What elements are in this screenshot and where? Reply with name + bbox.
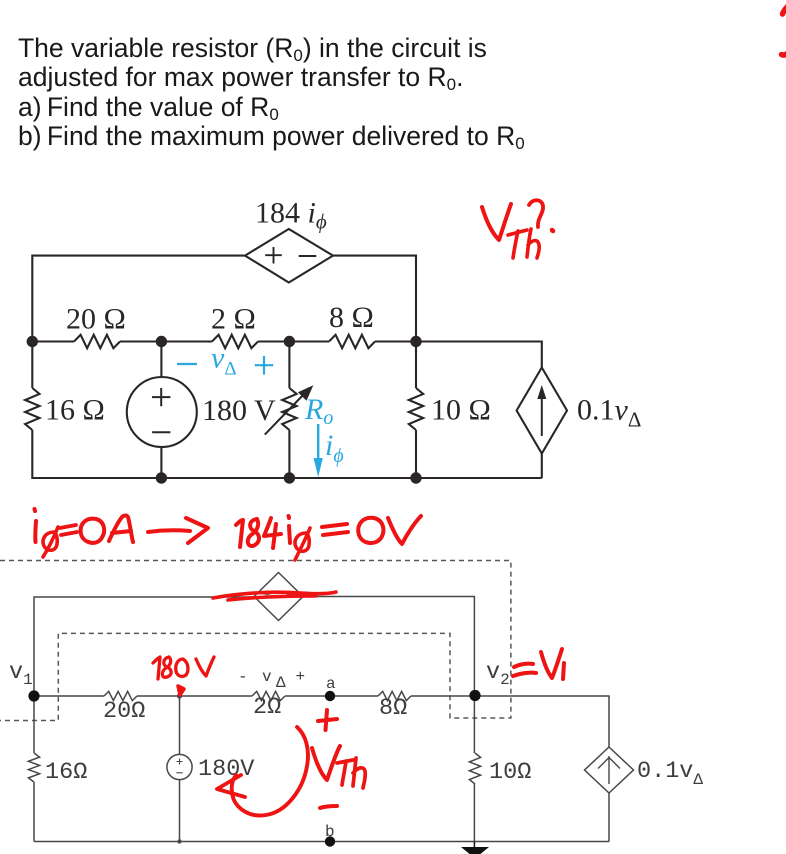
- red loop arrow: [232, 727, 308, 815]
- svg-text:8 Ω: 8 Ω: [329, 301, 374, 334]
- plus sign inside lower 180V: [177, 759, 183, 765]
- resistor lower 2ohm: [252, 691, 285, 700]
- red annotation 180V at node: [153, 657, 160, 679]
- problem statement line 3: [18, 92, 279, 126]
- wire middle rail segment node1-20ohm: [32, 340, 74, 342]
- junction dot 180V top: [177, 693, 182, 698]
- svg-text:a: a: [326, 675, 336, 693]
- wire 10ohm branch bottom: [415, 430, 417, 478]
- resistor R 2ohm: [212, 335, 258, 348]
- wire 180V branch bottom: [160, 447, 162, 478]
- wire Ro branch top: [288, 342, 290, 389]
- dependent source (zeroed) diamond lower circuit: [254, 573, 303, 621]
- svg-text:+: +: [296, 668, 306, 686]
- node dot v1: [28, 690, 39, 701]
- wire lower 10ohm branch upper: [473, 696, 475, 753]
- wire left rail upper: [31, 340, 33, 388]
- node dot b: [325, 836, 335, 846]
- wire top rail left: [32, 256, 245, 340]
- problem statement line 2: [18, 62, 463, 96]
- resistor lower 16ohm: [28, 753, 39, 782]
- svg-text:0.1vΔ: 0.1vΔ: [577, 394, 641, 432]
- variable resistor Ro zigzag: [282, 388, 296, 430]
- resistor lower 8ohm: [378, 691, 411, 700]
- wire lower middle rail 8ohm-v2: [411, 695, 474, 697]
- red minus below VTh: [320, 806, 337, 808]
- red ink corner blob 1: [783, 6, 786, 14]
- wire v2 to current source top: [474, 696, 609, 747]
- wire lower middle rail 2ohm-node a: [285, 695, 378, 697]
- node dot bottom 10ohm: [410, 472, 421, 483]
- voltage source V1 180V circle: [127, 377, 197, 447]
- wire middle rail segment 20ohm-2ohm: [120, 340, 212, 342]
- minus sign inside U1: [299, 255, 317, 257]
- resistor lower 10ohm: [469, 753, 480, 784]
- wire middle rail segment 2ohm-8ohm: [258, 340, 329, 342]
- ground symbol: [461, 847, 489, 854]
- wire left rail lower: [32, 430, 160, 478]
- svg-text:v: v: [262, 668, 272, 686]
- svg-text:20Ω: 20Ω: [103, 698, 145, 725]
- problem statement line 4: [18, 121, 525, 155]
- svg-text:10Ω: 10Ω: [489, 759, 531, 786]
- wire lower middle rail 20ohm-2ohm: [137, 695, 252, 697]
- red annotation =V1 at v2: [513, 664, 536, 676]
- node dot bottom Ro: [284, 472, 295, 483]
- wire lower current source bottom: [608, 793, 610, 842]
- resistor R 20ohm: [74, 335, 120, 348]
- red arrow to 180V node: [178, 686, 184, 695]
- arrowhead of Ro diagonal arrow: [298, 385, 313, 401]
- svg-text:v1: v1: [9, 659, 33, 689]
- svg-text:20 Ω: 20 Ω: [66, 303, 126, 336]
- wire lower middle rail v1-20ohm: [34, 695, 104, 697]
- svg-text:180 V: 180 V: [202, 394, 276, 427]
- voltage source lower 180V circle: [167, 754, 192, 779]
- wire middle rail segment 8ohm-right: [375, 342, 542, 368]
- plus sign inside V1: [152, 388, 170, 406]
- resistor R 10ohm: [409, 388, 423, 430]
- minus sign inside lower 180V: [176, 772, 182, 774]
- wire lower 180V branch top: [179, 696, 181, 755]
- problem statement line 1: [18, 33, 487, 67]
- resistor R 16ohm: [25, 388, 39, 430]
- arrowhead inside U2: [537, 385, 546, 399]
- variable resistor Ro arrow diagonal: [265, 393, 305, 435]
- node dot middle 10ohm: [410, 336, 421, 347]
- dependent current source lower 0.1vD diamond: [585, 747, 634, 793]
- svg-text:v2: v2: [486, 659, 510, 689]
- junction dot 180V bottom: [177, 839, 181, 843]
- plus sign inside U1: [265, 247, 282, 264]
- svg-text:16 Ω: 16 Ω: [45, 394, 105, 427]
- label minus vDelta plus (cyan): [177, 356, 273, 375]
- arrow inside lower current source: [598, 756, 620, 784]
- dashed Thevenin cut boundary: [0, 561, 511, 721]
- svg-text:iϕ: iϕ: [325, 429, 344, 467]
- node dot a: [325, 691, 335, 701]
- label iphi with arrow (cyan): [317, 424, 319, 462]
- svg-text:-: -: [238, 668, 248, 686]
- minus sign inside V1: [152, 431, 170, 433]
- wire Ro branch bottom: [288, 430, 290, 478]
- wire U2 bottom: [541, 454, 543, 479]
- svg-text:8Ω: 8Ω: [379, 695, 407, 722]
- red plus above VTh: [318, 710, 337, 730]
- dependent current source U2 0.1vD diamond: [517, 368, 567, 454]
- red ink corner blob 2: [782, 52, 786, 55]
- red annotation VTh? top: [482, 204, 511, 240]
- wire lower circuit top rail right: [303, 597, 474, 696]
- svg-text:184 iϕ: 184 iϕ: [255, 197, 327, 234]
- svg-text:b: b: [325, 823, 335, 841]
- arrow inside U2: [541, 392, 543, 436]
- node dot bottom 180V: [156, 472, 167, 483]
- red annotation iphi=0A arrow 184iphi=0V: [33, 521, 38, 542]
- wire 180V branch top: [160, 342, 162, 378]
- svg-text:Δ: Δ: [276, 674, 286, 692]
- resistor R 8ohm: [329, 335, 375, 348]
- node dot middle-left: [27, 336, 38, 347]
- svg-text:0.1vΔ: 0.1vΔ: [637, 758, 703, 789]
- wire lower circuit top rail left: [34, 597, 254, 695]
- svg-text:180V: 180V: [198, 756, 254, 783]
- wire lower 10ohm branch lower: [473, 784, 475, 842]
- node dot middle 180V: [156, 336, 167, 347]
- plus sign inside lower diamond: [264, 591, 271, 598]
- wire lower left rail lower: [33, 782, 35, 842]
- red strike through lower diamond: [213, 592, 336, 600]
- node dot middle Ro: [284, 336, 295, 347]
- svg-text:2 Ω: 2 Ω: [211, 303, 256, 336]
- svg-text:vΔ: vΔ: [211, 342, 237, 380]
- red annotation VTh middle: [312, 746, 340, 780]
- wire top rail right: [333, 256, 416, 340]
- svg-text:Ro: Ro: [304, 393, 333, 429]
- resistor lower 20ohm: [104, 691, 137, 700]
- wire lower bottom rail: [34, 841, 609, 843]
- svg-text:10 Ω: 10 Ω: [431, 394, 491, 427]
- wire bottom rail: [32, 477, 542, 479]
- svg-text:2Ω: 2Ω: [253, 694, 281, 721]
- wire 10ohm branch top: [415, 342, 417, 389]
- dependent voltage source U1 184iphi diamond: [245, 229, 333, 283]
- wire lower 180V branch bottom: [179, 780, 181, 842]
- wire lower left rail 16ohm upper: [33, 696, 35, 753]
- node dot v2: [469, 690, 480, 701]
- svg-text:16Ω: 16Ω: [45, 759, 87, 786]
- minus sign inside lower diamond: [287, 593, 294, 595]
